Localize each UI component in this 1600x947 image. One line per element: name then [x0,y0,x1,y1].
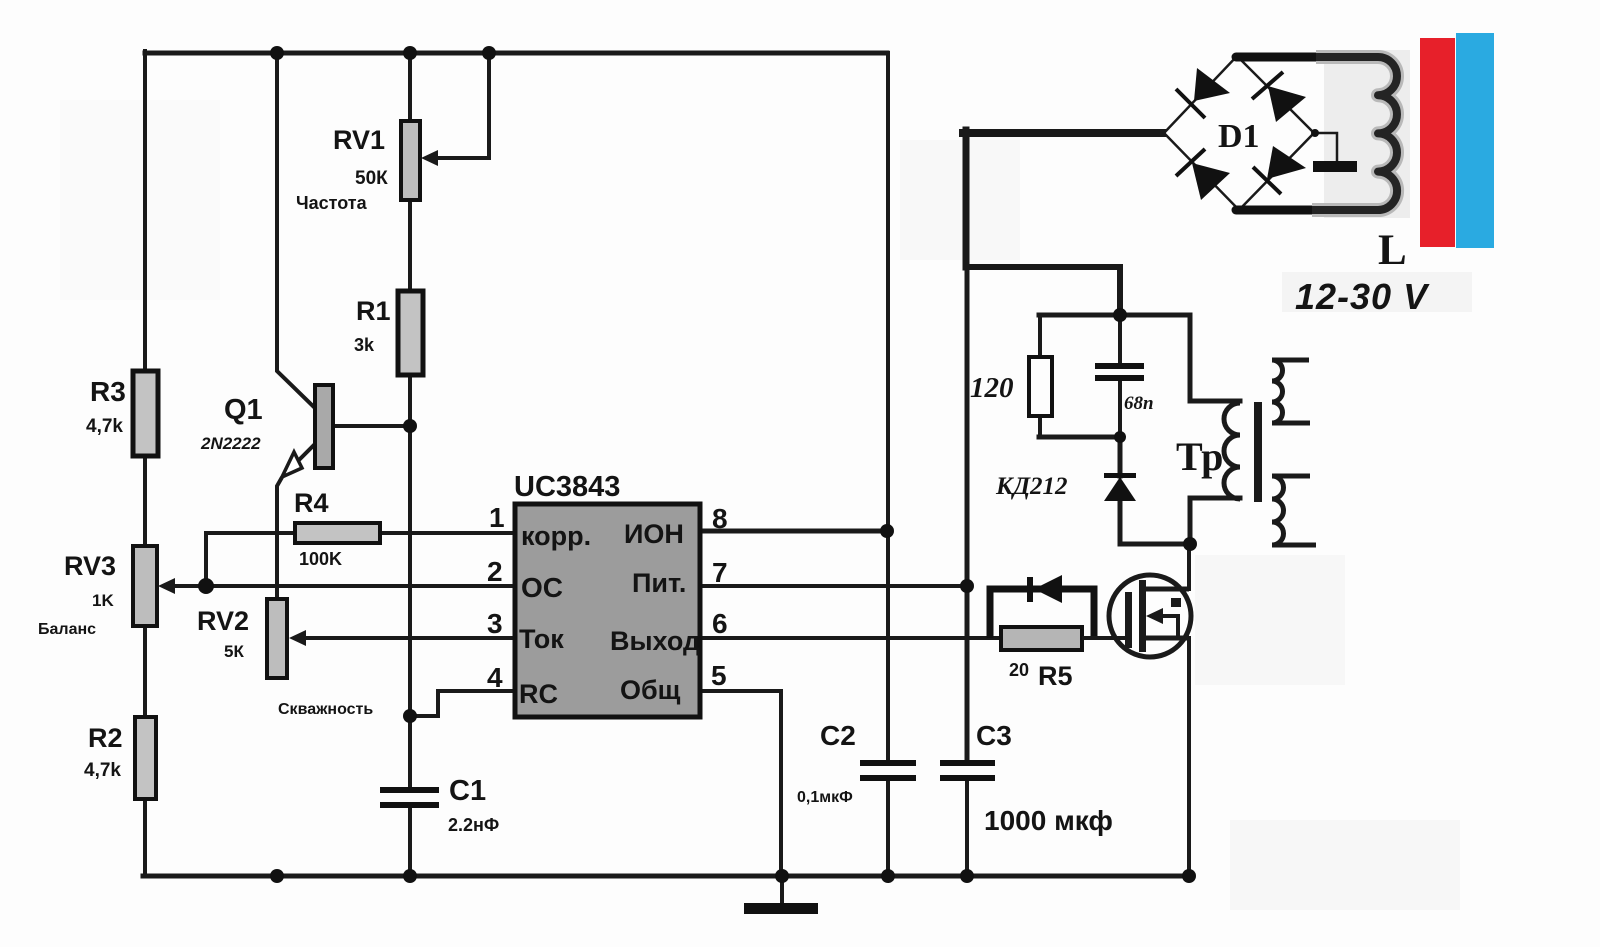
wire center vertical (RV1/R1/C1 branch) upper [408,51,412,789]
inductor L mains coil [1312,57,1397,210]
svg-text:68n: 68n [1124,393,1154,414]
wire pin 5 to ground [700,691,781,876]
node top rail / wiper riser [482,46,496,60]
wire R4 left drop [204,533,208,586]
wire 68n leads [1118,315,1122,437]
transistor Q1 2N2222 [200,385,333,477]
transformer Tp secondary winding upper [1272,360,1310,423]
wire R4 net (pin 1) [206,531,515,535]
wire Tp primary top feed [1190,315,1240,401]
svg-text:КД212: КД212 [995,473,1068,500]
svg-text:C3: C3 [976,720,1012,751]
red pole bar [1420,38,1455,247]
svg-text:2N2222: 2N2222 [200,434,261,453]
node pin4 / center vertical [403,709,417,723]
blue pole bar [1456,33,1494,248]
node pin8 / C2 branch [880,524,894,538]
diode D1 upper-right element [1252,72,1306,122]
wire snubber feed horizontal (thick) [966,267,1120,315]
node bottom rail / pin5 ground [775,869,789,883]
wire supply vertical from bridge upper (thick) [963,130,970,267]
wire C2 branch vertical [886,53,890,759]
wire bridge right output stub [1315,133,1337,163]
svg-text:RV3: RV3 [64,551,116,581]
wire KD212 leads [1118,437,1123,544]
wire drain link horizontal [1120,542,1190,547]
node R4 / pin2 line [198,578,214,594]
wire snubber top rail [1039,313,1190,318]
node bottom rail / RV2 branch [270,869,284,883]
node bottom rail / C2 [881,869,895,883]
wire pin 8 to C2 branch [700,529,888,534]
svg-text:Частота: Частота [296,193,368,213]
wire MOSFET drain riser [1187,544,1191,589]
node top rail / RV1 branch [403,46,417,60]
wire pin 6 output to R5 [700,636,1001,640]
svg-text:R3: R3 [90,376,126,407]
resistor R2 4.7k [84,717,156,799]
wire top supply rail [145,51,887,56]
svg-text:8: 8 [712,503,728,534]
svg-text:7: 7 [712,557,728,588]
capacitor C1 2.2nF [380,775,499,835]
wire pin 3 to RV2 wiper [298,636,515,640]
svg-text:2.2нФ: 2.2нФ [448,815,499,835]
svg-text:RV1: RV1 [333,125,385,155]
node bridge right corner [1311,129,1319,137]
node Q1 base / R1 branch [403,419,417,433]
wire Q1 base link [333,424,410,428]
svg-text:1000 мкф: 1000 мкф [984,805,1113,836]
node bottom rail / source [1182,869,1196,883]
transformer Tp primary winding [1224,403,1240,499]
wire pin 2 to RV3 wiper [166,584,515,588]
svg-text:C1: C1 [449,775,486,807]
svg-text:Баланс: Баланс [38,621,96,638]
wire Q1 collector riser [277,51,316,409]
svg-text:ОС: ОС [521,572,563,603]
svg-text:Скважность: Скважность [278,701,373,718]
wire C2 lower lead [886,782,890,876]
svg-text:D1: D1 [1218,118,1260,155]
wire MOSFET source to ground rail [1187,638,1191,876]
svg-text:1: 1 [489,502,505,533]
wire snubber bottom rail [1039,435,1120,440]
wire pin 4 RC [412,691,515,716]
wire Tp primary bottom return [1190,498,1240,544]
inductor L mains coil shading [1312,57,1397,210]
resistor 120 ohm snubber [970,357,1052,416]
diode D1 lower-right element [1253,146,1306,194]
resistor R3 4.7k [86,371,158,456]
node bottom rail / C3 [960,869,974,883]
svg-text:Тр: Тр [1176,434,1223,479]
svg-text:50К: 50К [355,168,388,189]
node snubber top rail / 68n [1113,308,1127,322]
potentiometer RV1 50K frequency [296,121,438,213]
svg-text:RC: RC [519,679,558,709]
svg-text:5К: 5К [224,642,244,661]
svg-text:2: 2 [487,556,503,587]
svg-text:12-30 V: 12-30 V [1295,276,1430,317]
wire supply vertical middle [965,267,970,759]
capacitor 68n snubber [1095,363,1154,414]
svg-text:Выход: Выход [610,626,700,656]
diode D1 lower-left element [1176,149,1230,200]
capacitor C3 1000uF [940,720,1113,836]
wire left rail [143,51,147,876]
svg-text:R2: R2 [88,723,123,753]
resistor R5 20 with bypass diode loop [990,575,1127,691]
svg-text:Q1: Q1 [224,394,263,426]
node pin7 / supply branch [960,579,974,593]
node drain link / primary return [1183,537,1197,551]
svg-text:4,7k: 4,7k [86,416,123,437]
node top rail / collector riser [270,46,284,60]
wire bridge AC bottom bar (thick) [1236,206,1313,215]
svg-text:RV2: RV2 [197,606,249,636]
svg-text:4: 4 [487,662,503,693]
svg-text:3: 3 [487,608,503,639]
resistor R4 100K [294,488,380,569]
svg-text:0,1мкФ: 0,1мкФ [797,789,853,806]
svg-text:100K: 100K [299,549,342,569]
node snubber bottom rail / 68n [1114,431,1126,443]
diode bridge D1 diamond frame [1164,56,1314,210]
ground bar at bridge output [1313,161,1357,172]
wire RV1 wiper feedback [434,53,489,158]
svg-text:Пит.: Пит. [632,568,686,598]
transformer Tp core [1254,402,1262,502]
svg-text:20: 20 [1009,660,1029,680]
wire center vertical lower below C1 [408,807,412,876]
capacitor C2 0.1uF [797,720,916,806]
potentiometer RV3 1K Balance [38,546,175,638]
op-amp U1 UC3843 PWM controller box [514,471,700,717]
svg-text:1K: 1K [92,591,114,610]
wire 120 ohm leads [1038,315,1042,437]
svg-text:корр.: корр. [521,521,591,551]
diode D1 upper-left element [1176,68,1230,118]
wire C3 lower lead [965,782,969,876]
wire bridge DC feed horizontal (thick) [963,129,1162,137]
node bottom rail / C1 branch [403,869,417,883]
svg-text:UC3843: UC3843 [514,471,620,503]
wire pin 7 to supply branch [700,584,967,588]
svg-text:L: L [1378,227,1407,274]
svg-text:3k: 3k [354,335,375,355]
potentiometer RV2 5K duty [197,599,373,718]
resistor R1 3k [354,291,423,375]
wire bottom ground rail [143,874,1191,879]
svg-text:ИОН: ИОН [624,519,684,549]
svg-text:R5: R5 [1038,661,1073,691]
svg-text:6: 6 [712,608,728,639]
svg-text:120: 120 [970,372,1014,404]
svg-text:R4: R4 [294,488,329,518]
svg-text:4,7k: 4,7k [84,760,121,781]
transistor Q2 MOSFET [1109,575,1191,657]
svg-text:Ток: Ток [519,624,564,654]
svg-text:R1: R1 [356,296,391,326]
svg-text:C2: C2 [820,720,856,751]
ground symbol main [744,876,818,914]
diode KD212 [995,473,1136,501]
wire Q1 emitter to RV2 [277,443,316,599]
svg-text:5: 5 [711,660,727,691]
wire bridge AC top bar (thick) [1236,53,1318,62]
transformer Tp secondary winding lower [1272,476,1316,545]
svg-text:Общ: Общ [620,675,681,705]
